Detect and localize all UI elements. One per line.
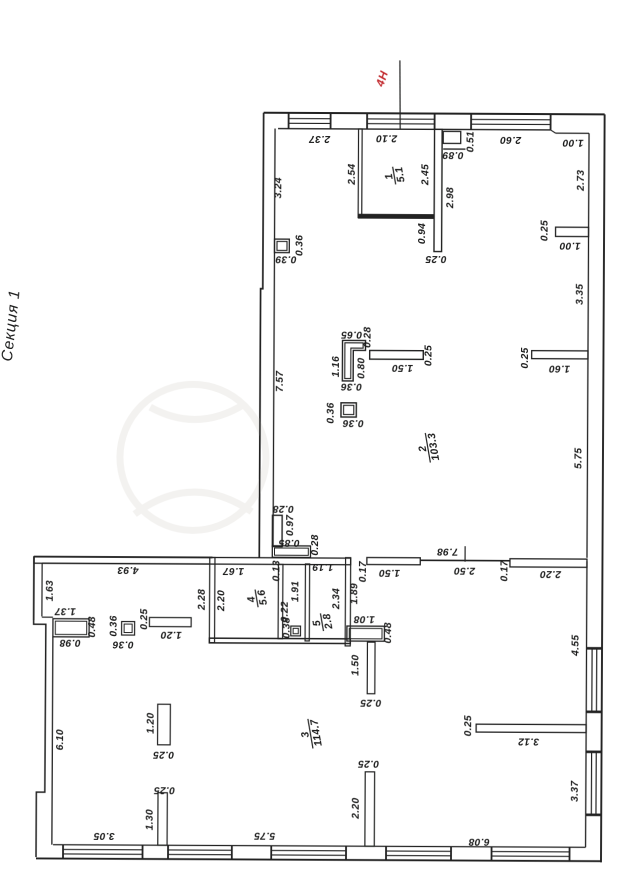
svg-text:0.28: 0.28 — [363, 327, 374, 348]
svg-text:1.00: 1.00 — [562, 136, 583, 147]
svg-text:3.12: 3.12 — [518, 735, 539, 746]
svg-text:0.51: 0.51 — [466, 131, 477, 152]
svg-text:0.17: 0.17 — [500, 559, 511, 581]
svg-text:4.93: 4.93 — [117, 564, 139, 575]
svg-text:4H: 4H — [374, 69, 391, 89]
svg-text:2.54: 2.54 — [347, 164, 358, 186]
svg-text:3.24: 3.24 — [273, 177, 284, 198]
svg-text:3.05: 3.05 — [93, 830, 114, 841]
svg-text:2.34: 2.34 — [331, 588, 342, 610]
svg-text:0.25: 0.25 — [360, 697, 381, 708]
svg-text:1.60: 1.60 — [549, 362, 570, 373]
svg-text:7.57: 7.57 — [275, 370, 286, 392]
svg-text:0.89: 0.89 — [442, 149, 463, 160]
svg-text:0.36: 0.36 — [326, 402, 337, 423]
svg-text:114.7: 114.7 — [308, 717, 325, 747]
svg-text:5.1: 5.1 — [393, 166, 407, 184]
svg-text:0.25: 0.25 — [520, 347, 531, 368]
svg-text:0.25: 0.25 — [358, 758, 379, 769]
svg-text:0.17: 0.17 — [358, 560, 369, 582]
svg-text:1.50: 1.50 — [379, 567, 400, 578]
svg-text:0.65: 0.65 — [341, 328, 362, 339]
svg-text:2.45: 2.45 — [420, 164, 431, 186]
svg-text:103.3: 103.3 — [426, 432, 443, 462]
svg-text:0.38: 0.38 — [282, 617, 293, 638]
svg-text:2.98: 2.98 — [445, 187, 456, 209]
svg-text:0.48: 0.48 — [87, 616, 98, 637]
svg-text:0.94: 0.94 — [417, 223, 428, 244]
svg-text:1.91: 1.91 — [290, 581, 301, 602]
svg-text:0.98: 0.98 — [59, 637, 80, 648]
svg-text:0.13: 0.13 — [272, 560, 283, 581]
svg-text:1.30: 1.30 — [145, 809, 156, 830]
svg-text:0.25: 0.25 — [139, 609, 150, 630]
svg-text:1.19: 1.19 — [312, 561, 333, 572]
svg-text:2.28: 2.28 — [197, 589, 208, 611]
svg-text:2.73: 2.73 — [576, 170, 587, 192]
svg-text:0.48: 0.48 — [383, 622, 394, 643]
svg-text:2.20: 2.20 — [540, 568, 562, 579]
svg-text:1.50: 1.50 — [392, 362, 413, 373]
svg-text:0.25: 0.25 — [424, 345, 435, 366]
svg-text:0.36: 0.36 — [112, 638, 133, 649]
svg-text:2.60: 2.60 — [500, 134, 522, 145]
svg-text:0.36: 0.36 — [342, 417, 363, 428]
svg-text:1.63: 1.63 — [45, 580, 56, 601]
svg-text:3.37: 3.37 — [570, 780, 581, 802]
svg-text:0.97: 0.97 — [285, 514, 296, 536]
svg-text:0.25: 0.25 — [153, 748, 174, 759]
svg-text:0.28: 0.28 — [273, 503, 294, 514]
svg-text:1.08: 1.08 — [354, 613, 375, 624]
svg-text:2.37: 2.37 — [308, 133, 331, 144]
svg-text:3.35: 3.35 — [575, 284, 586, 305]
svg-text:1.20: 1.20 — [160, 629, 181, 640]
svg-text:2.8: 2.8 — [321, 612, 336, 631]
svg-text:2.20: 2.20 — [351, 798, 362, 820]
svg-text:7.98: 7.98 — [437, 545, 458, 556]
svg-text:0.25: 0.25 — [463, 715, 474, 736]
svg-text:1.89: 1.89 — [349, 583, 360, 604]
svg-text:5.6: 5.6 — [255, 589, 269, 607]
svg-text:1.20: 1.20 — [146, 713, 157, 734]
svg-text:0.85: 0.85 — [278, 537, 299, 548]
svg-text:0.28: 0.28 — [310, 534, 321, 555]
svg-text:1.67: 1.67 — [222, 565, 244, 576]
svg-text:0.25: 0.25 — [540, 220, 551, 241]
svg-text:0.36: 0.36 — [109, 615, 120, 636]
svg-text:6.08: 6.08 — [468, 836, 489, 847]
svg-text:0.25: 0.25 — [425, 253, 446, 264]
svg-text:0.25: 0.25 — [154, 784, 175, 795]
svg-text:1.00: 1.00 — [559, 239, 580, 250]
svg-text:5.75: 5.75 — [254, 829, 275, 840]
svg-text:0.36: 0.36 — [341, 380, 362, 391]
svg-text:0.39: 0.39 — [275, 253, 296, 264]
svg-text:4.55: 4.55 — [571, 635, 582, 657]
svg-text:0.80: 0.80 — [357, 358, 368, 379]
svg-text:0.36: 0.36 — [295, 235, 306, 256]
svg-text:6.10: 6.10 — [55, 729, 66, 750]
svg-text:1.37: 1.37 — [54, 605, 76, 616]
svg-text:2.50: 2.50 — [454, 564, 476, 575]
svg-text:2.10: 2.10 — [376, 132, 398, 143]
svg-text:5.75: 5.75 — [574, 448, 585, 469]
svg-text:1.50: 1.50 — [351, 655, 362, 676]
svg-text:1.16: 1.16 — [331, 356, 342, 377]
svg-text:Секция 1: Секция 1 — [0, 289, 24, 363]
svg-text:2.20: 2.20 — [216, 590, 227, 612]
